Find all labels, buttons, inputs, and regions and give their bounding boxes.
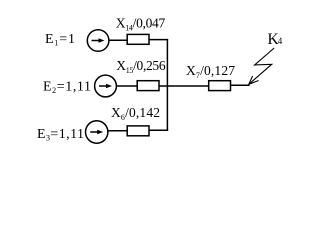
wire X15 to X7 xyxy=(159,85,209,87)
wire E2 to X15 xyxy=(117,85,137,87)
svg-text:E1=1: E1=1 xyxy=(45,32,75,48)
wire X7 to fault xyxy=(231,84,250,86)
resistor X6 xyxy=(127,126,149,136)
resistor X14 xyxy=(127,34,149,44)
svg-text:X14/0,047: X14/0,047 xyxy=(116,16,166,33)
EMF source E1 xyxy=(87,30,109,52)
wire E1 to X14 xyxy=(109,39,127,41)
wire X14 to bus xyxy=(149,39,168,41)
wire E3 to X6 xyxy=(108,130,128,132)
EMF source E2 xyxy=(95,75,117,97)
wire vertical bus xyxy=(166,39,168,131)
EMF source E3 xyxy=(86,121,108,143)
wire X6 to bus xyxy=(149,129,168,131)
svg-text:E2=1,11: E2=1,11 xyxy=(43,80,91,96)
svg-text:X6/0,142: X6/0,142 xyxy=(111,105,160,122)
resistor X7 xyxy=(209,81,231,91)
svg-text:E3=1,11: E3=1,11 xyxy=(37,127,84,143)
resistor X15 xyxy=(137,81,159,91)
svg-text:X7/0,127: X7/0,127 xyxy=(186,63,235,80)
short-circuit arrow K4 xyxy=(249,48,274,84)
svg-text:X15/0,256: X15/0,256 xyxy=(116,58,166,75)
